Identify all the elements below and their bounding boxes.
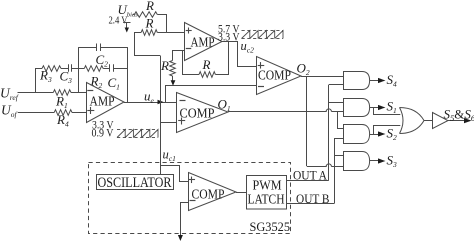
wire buffer output xyxy=(448,120,464,122)
svg-text:0.9 V: 0.9 V xyxy=(92,128,115,140)
wire AMP2 inverting input xyxy=(173,51,186,61)
svg-text:COMP: COMP xyxy=(192,188,225,203)
comparator U2 COMP1 xyxy=(177,93,229,133)
wire AMP2 output to COMP2 plus xyxy=(222,42,257,67)
svg-text:R: R xyxy=(160,58,169,73)
label S2 xyxy=(387,125,398,142)
resistor R lower bias xyxy=(141,30,157,36)
wire G3 output xyxy=(370,134,378,136)
wire OUTA to AND1 input xyxy=(329,84,344,86)
node ue label xyxy=(144,89,155,106)
arrow S1 xyxy=(378,105,386,110)
wire Ubias to R upper xyxy=(133,14,134,16)
value label 0.9 V xyxy=(92,128,115,140)
label OUT B xyxy=(296,191,330,206)
wire G1 output xyxy=(370,80,378,82)
label R3 xyxy=(39,68,52,85)
wire uc1 vertical main xyxy=(160,56,162,175)
waveform uc2 ramp symbol xyxy=(242,31,284,39)
wire feedback rail to output xyxy=(215,42,228,75)
svg-text:2.4 V: 2.4 V xyxy=(109,16,128,27)
PWM latch label line2 xyxy=(248,192,285,207)
wire OUT A xyxy=(286,180,328,182)
capacitor C1 xyxy=(110,64,114,72)
wire branch to R3 xyxy=(36,68,43,70)
capacitor C2 xyxy=(97,44,101,52)
op-amp U3 noninverting pin mark xyxy=(186,28,192,34)
arrow to error input below xyxy=(178,235,183,241)
svg-text:OUT A: OUT A xyxy=(293,168,328,183)
wire C3 to inverting node xyxy=(72,68,79,70)
node Uref input label xyxy=(0,86,19,103)
wire OUTA tap to AND2 input xyxy=(329,102,344,104)
wire COMP3 output to PWM latch xyxy=(236,192,247,194)
wire C1 to feedback vertical xyxy=(113,68,127,70)
svg-text:PWM: PWM xyxy=(253,178,282,193)
or-gate G5 xyxy=(400,108,425,134)
oscillator block box xyxy=(97,175,174,190)
svg-text:R: R xyxy=(202,57,211,72)
wire O1 branch down to AND3 xyxy=(338,112,344,129)
svg-text:COMP: COMP xyxy=(258,69,291,84)
arrow S5S6 output xyxy=(464,118,472,123)
resistor R3 xyxy=(42,66,61,72)
wire R3 to C3 xyxy=(61,68,68,70)
op-amp U1 label AMP xyxy=(90,94,115,109)
wire O2 bus down xyxy=(306,77,308,166)
svg-text:S5&S6: S5&S6 xyxy=(444,107,474,124)
label S3 xyxy=(387,152,398,169)
svg-text:R: R xyxy=(145,0,154,13)
and-gate G3 xyxy=(344,125,370,144)
wire feedback vertical to AMP output xyxy=(127,47,129,102)
label R1 xyxy=(55,94,68,111)
op-amp U1 noninverting pin mark xyxy=(87,107,94,114)
ground arrow at Ubias node xyxy=(123,22,130,33)
wire oscillator to COMP3 plus xyxy=(160,166,188,182)
wire ue from AMP output to COMP1 xyxy=(124,102,176,104)
wire R lower right to AMP2 plus xyxy=(157,32,185,34)
wire OUTB bus up xyxy=(334,139,336,204)
svg-text:AMP: AMP xyxy=(191,35,215,50)
label S4 xyxy=(387,72,398,89)
wire C2 top path right xyxy=(100,47,127,49)
comparator U4 label COMP xyxy=(258,69,291,84)
svg-text:SG3525: SG3525 xyxy=(250,219,291,234)
wire O2 to AND4 input with hop xyxy=(307,164,344,167)
comparator U5 label COMP xyxy=(192,188,225,203)
comparator U5 COMP3 internal xyxy=(189,173,237,211)
wire O1 output to AND2 with hop xyxy=(228,109,344,112)
value label 3.3 V upper xyxy=(218,32,240,44)
label R4 xyxy=(56,112,69,129)
node O1 output label xyxy=(218,97,231,114)
wire C2 top path left xyxy=(78,47,97,49)
wire O2 output to AND1 xyxy=(301,76,344,78)
svg-text:OSCILLATOR: OSCILLATOR xyxy=(98,175,172,191)
wire R2 to C1 xyxy=(103,68,110,70)
value label 2.4 V xyxy=(109,16,128,27)
ground arrow below R xyxy=(171,76,176,86)
node Uof input label xyxy=(1,103,18,120)
resistor R upper bias xyxy=(134,12,157,18)
comparator U4 inverting pin mark xyxy=(258,86,264,88)
and-gate G1 xyxy=(344,72,370,90)
svg-text:OUT B: OUT B xyxy=(296,191,330,206)
op-amp U3 label AMP xyxy=(191,35,215,50)
wire COMP3 inverting input down xyxy=(181,203,189,236)
wire inverting to feedback rail xyxy=(183,51,200,75)
wire ue branch up to COMP2 inverting xyxy=(166,86,257,103)
svg-text:3.3 V: 3.3 V xyxy=(218,32,240,44)
label R2 xyxy=(90,74,103,91)
comparator U2 label COMP xyxy=(180,107,215,122)
arrow S2 xyxy=(378,131,386,136)
node uc1 label xyxy=(163,148,176,164)
label R ground resistor xyxy=(160,58,169,73)
SG3525 IC dashed boundary xyxy=(89,163,291,234)
resistor R4 xyxy=(54,110,72,116)
op-amp U3 inverting pin mark xyxy=(186,48,192,50)
label S1 xyxy=(387,99,397,116)
capacitor C3 xyxy=(69,64,72,72)
node O2 output label xyxy=(297,60,310,77)
node Ubias label xyxy=(118,2,139,19)
svg-text:R: R xyxy=(145,16,154,31)
wire OUT B xyxy=(286,203,334,205)
label S5 and S6 xyxy=(444,107,474,124)
comparator U5 noninverting pin mark xyxy=(189,177,196,184)
label R upper xyxy=(145,0,154,13)
svg-text:AMP: AMP xyxy=(90,94,115,109)
PWM latch block box xyxy=(247,176,287,210)
wire OUTB to AND3 input xyxy=(334,138,344,140)
wire R lower left from uc1 xyxy=(135,33,161,56)
wire OR output to buffer xyxy=(424,120,432,122)
resistor R feedback xyxy=(199,72,215,78)
comparator U2 inverting pin mark xyxy=(180,100,186,102)
value label 5.7 V xyxy=(218,23,240,35)
label R feedback xyxy=(202,57,211,72)
arrow S4 xyxy=(378,78,386,83)
wire R upper to junction xyxy=(157,15,166,33)
value label 3.3 V xyxy=(92,120,114,132)
resistor R1 xyxy=(53,90,71,96)
and-gate G4 xyxy=(344,152,370,171)
label OUT A xyxy=(293,168,328,183)
wire COMP1 plus input from uc1 xyxy=(160,122,176,124)
wire OUTB tap to AND4 input xyxy=(334,155,344,157)
op-amp U3 AMP level shifter xyxy=(185,23,223,61)
wire OUTA bus up xyxy=(328,85,330,181)
wire inverting node vertical xyxy=(78,47,80,92)
signal arrow on ue wire xyxy=(158,100,164,104)
op-amp U1 AMP error amplifier xyxy=(87,83,125,123)
resistor R2 xyxy=(84,66,103,72)
waveform uc1 ramp symbol xyxy=(117,130,158,138)
wire junction Uref to R3 branch xyxy=(35,68,37,92)
resistor R to ground xyxy=(170,61,176,77)
wire S2 branch to OR gate xyxy=(374,126,401,135)
svg-text:LATCH: LATCH xyxy=(248,192,285,207)
wire G2 output xyxy=(370,107,378,109)
and-gate G2 xyxy=(344,99,370,117)
label C1 xyxy=(108,75,120,92)
comparator U4 COMP2 xyxy=(257,57,302,95)
PWM latch label line1 xyxy=(253,178,282,193)
wire R4 to AMP noninverting input xyxy=(72,112,86,114)
svg-text:COMP: COMP xyxy=(180,107,215,122)
wire Uof input xyxy=(18,112,54,114)
comparator U2 noninverting pin mark xyxy=(178,118,185,125)
comparator U4 noninverting pin mark xyxy=(258,62,265,69)
wire Uref input xyxy=(18,92,54,94)
wire R1 to AMP inverting input xyxy=(71,92,86,94)
op-amp U1 inverting pin mark xyxy=(87,90,93,92)
label R lower xyxy=(145,16,154,31)
label C3 xyxy=(60,69,73,86)
oscillator block label xyxy=(98,175,172,191)
node uc2 label xyxy=(241,39,255,55)
buffer driver triangle xyxy=(433,113,448,129)
wire inverting node to R2 xyxy=(78,68,84,70)
arrow S3 xyxy=(378,158,386,163)
wire S1 branch to OR gate xyxy=(374,108,401,115)
wire G4 output xyxy=(370,160,378,162)
label C2 xyxy=(96,52,109,69)
comparator U5 inverting pin mark xyxy=(190,200,196,202)
label SG3525 xyxy=(250,219,291,234)
